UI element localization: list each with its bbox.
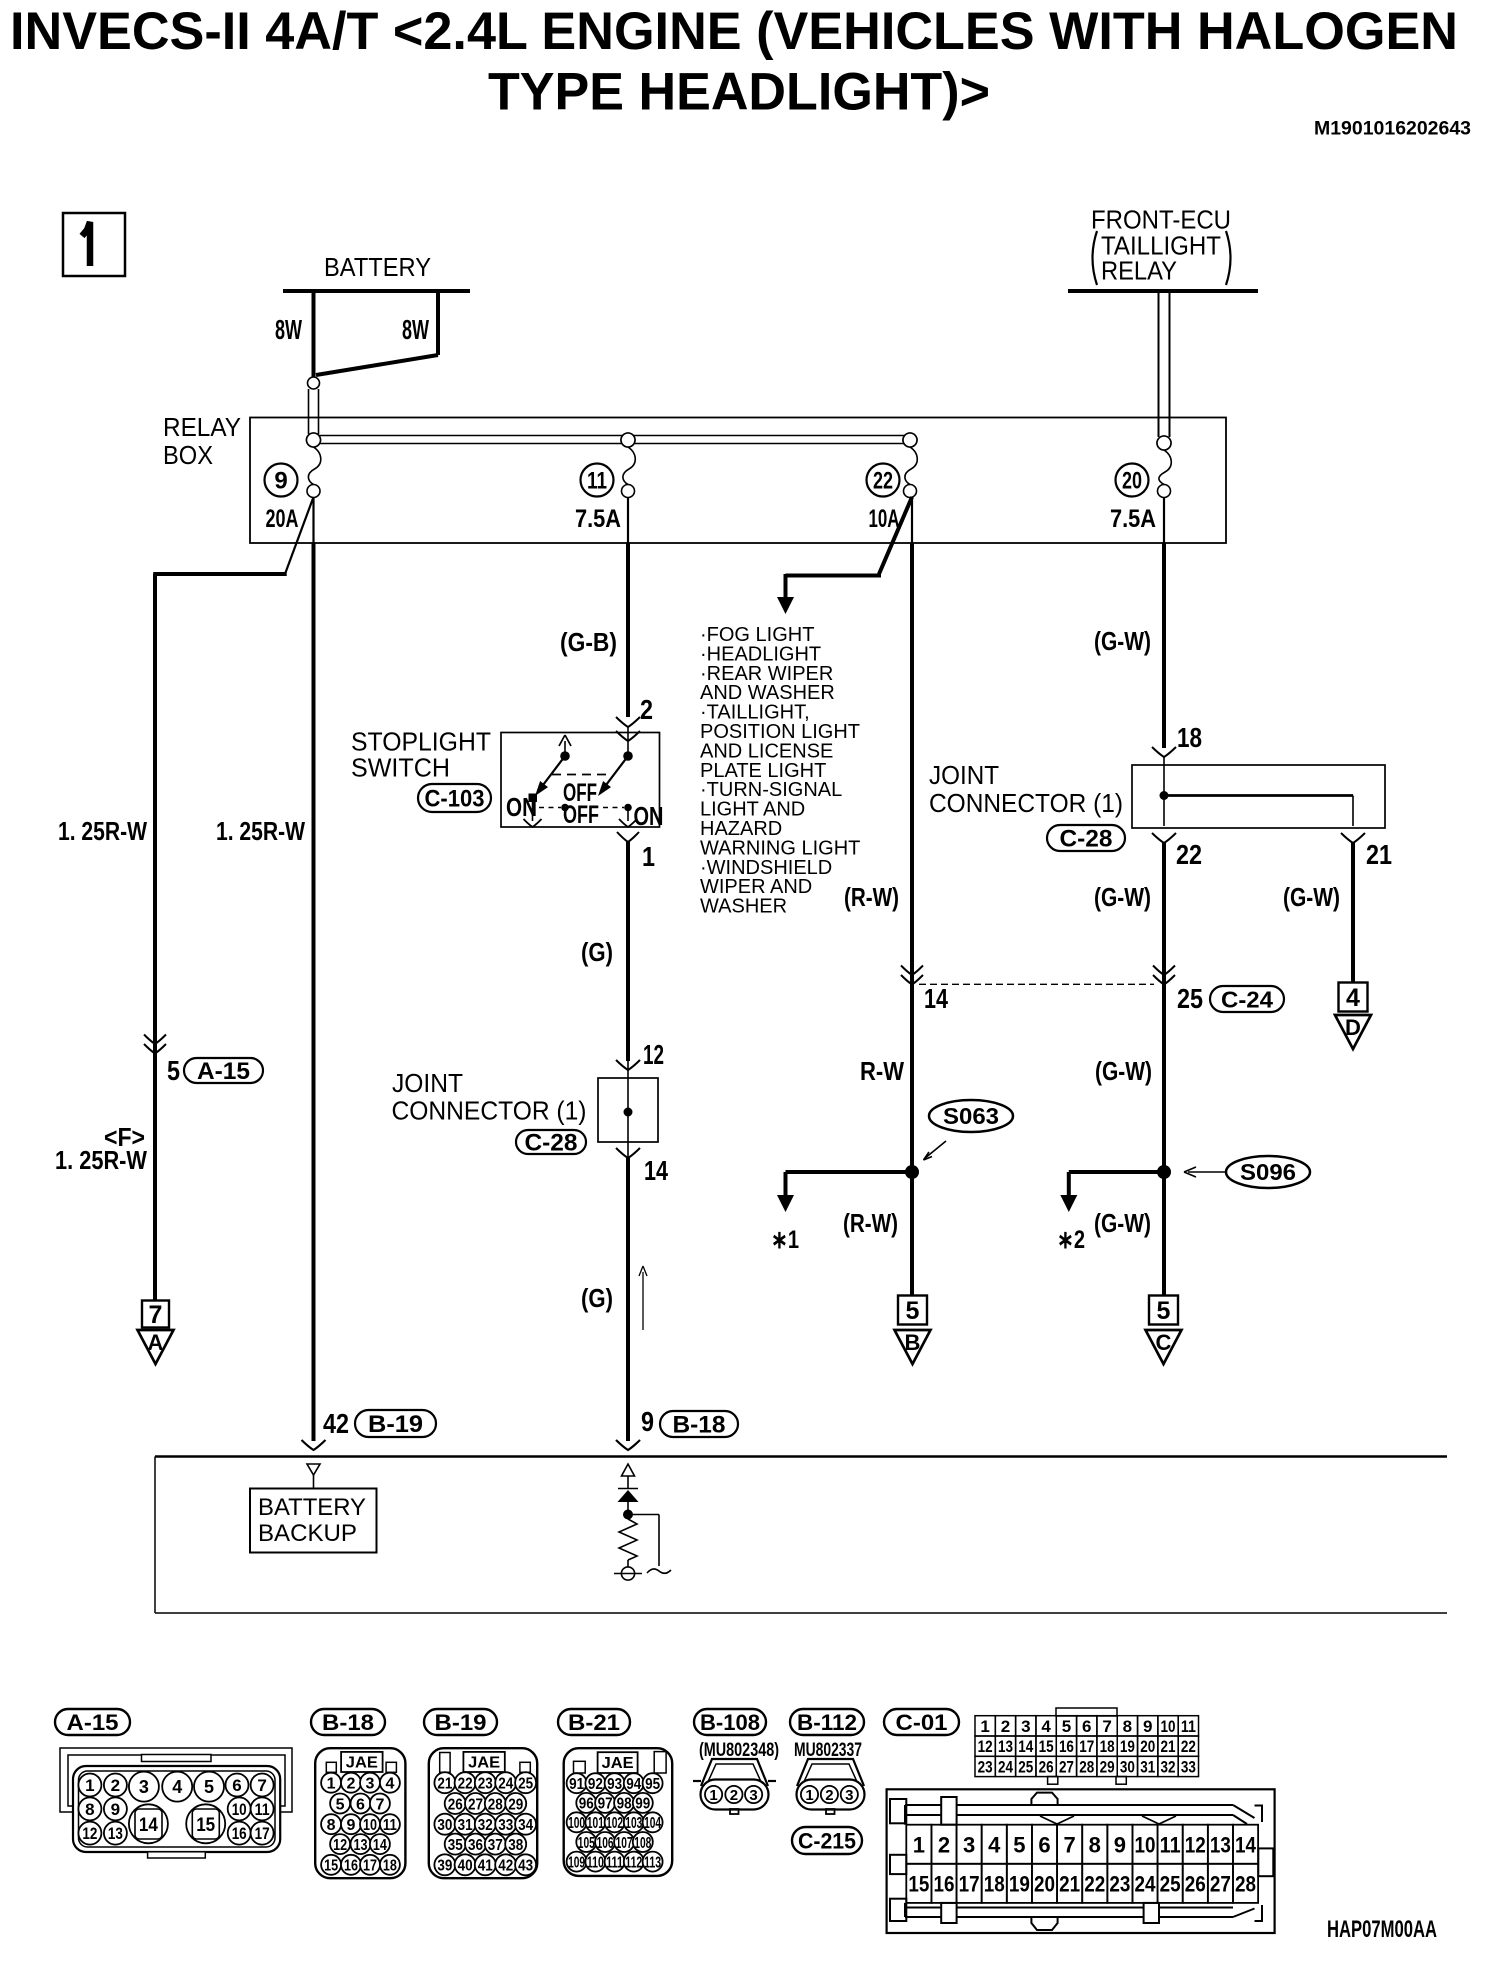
svg-text:14: 14 xyxy=(1018,1737,1033,1756)
svg-text:D: D xyxy=(1345,1015,1361,1040)
svg-text:11: 11 xyxy=(255,1800,270,1819)
svg-text:B-112: B-112 xyxy=(797,1710,857,1735)
svg-text:15: 15 xyxy=(908,1871,929,1896)
svg-text:C-28: C-28 xyxy=(525,1130,578,1157)
svg-text:6: 6 xyxy=(356,1796,365,1813)
svg-text:B-19: B-19 xyxy=(435,1710,487,1735)
svg-text:97: 97 xyxy=(598,1796,613,1813)
svg-text:31: 31 xyxy=(458,1817,473,1834)
svg-text:26: 26 xyxy=(1185,1871,1206,1896)
svg-text:1: 1 xyxy=(980,1717,989,1736)
svg-text:28: 28 xyxy=(1235,1871,1256,1896)
svg-text:17: 17 xyxy=(959,1871,980,1896)
svg-text:10A: 10A xyxy=(869,505,900,533)
svg-text:ON: ON xyxy=(506,792,537,822)
svg-text:WASHER: WASHER xyxy=(700,896,787,918)
svg-text:18: 18 xyxy=(1100,1737,1115,1756)
svg-text:3: 3 xyxy=(139,1777,149,1797)
svg-text:B-19: B-19 xyxy=(368,1411,423,1438)
svg-text:11: 11 xyxy=(383,1817,397,1834)
svg-text:16: 16 xyxy=(232,1824,247,1843)
svg-text:10: 10 xyxy=(1135,1832,1156,1857)
svg-text:B: B xyxy=(905,1330,921,1355)
svg-text:32: 32 xyxy=(1161,1757,1176,1776)
svg-text:1: 1 xyxy=(709,1787,717,1804)
svg-text:8: 8 xyxy=(85,1800,94,1819)
svg-text:27: 27 xyxy=(1059,1757,1074,1776)
svg-text:24: 24 xyxy=(1135,1871,1157,1896)
svg-text:BOX: BOX xyxy=(163,440,213,470)
svg-text:21: 21 xyxy=(437,1775,452,1792)
svg-text:4: 4 xyxy=(988,1832,1001,1857)
svg-text:3: 3 xyxy=(845,1787,853,1804)
svg-text:1. 25R-W: 1. 25R-W xyxy=(216,816,305,846)
svg-text:∗1: ∗1 xyxy=(771,1226,799,1254)
svg-text:19: 19 xyxy=(1120,1737,1135,1756)
svg-text:(R-W): (R-W) xyxy=(844,882,899,912)
svg-text:SWITCH: SWITCH xyxy=(351,753,450,783)
svg-text:38: 38 xyxy=(508,1837,523,1854)
svg-text:27: 27 xyxy=(1210,1871,1231,1896)
svg-text:40: 40 xyxy=(458,1858,473,1875)
svg-text:113: 113 xyxy=(644,1854,661,1871)
svg-text:37: 37 xyxy=(488,1837,503,1854)
svg-text:5: 5 xyxy=(336,1796,345,1813)
svg-text:11: 11 xyxy=(1160,1832,1181,1857)
svg-text:42: 42 xyxy=(323,1408,349,1439)
svg-text:JAE: JAE xyxy=(602,1755,634,1772)
svg-text:14: 14 xyxy=(139,1815,158,1836)
svg-text:22: 22 xyxy=(1176,839,1202,870)
svg-text:14: 14 xyxy=(924,983,948,1014)
svg-text:42: 42 xyxy=(498,1858,513,1875)
svg-text:17: 17 xyxy=(255,1824,270,1843)
svg-text:29: 29 xyxy=(508,1796,523,1813)
svg-text:BACKUP: BACKUP xyxy=(258,1520,357,1547)
svg-text:20: 20 xyxy=(1034,1871,1055,1896)
svg-text:6: 6 xyxy=(232,1776,241,1795)
svg-text:102: 102 xyxy=(606,1815,623,1832)
svg-text:3: 3 xyxy=(1021,1717,1030,1736)
svg-text:101: 101 xyxy=(587,1815,604,1832)
svg-text:17: 17 xyxy=(363,1858,377,1875)
svg-text:11: 11 xyxy=(587,468,607,495)
svg-text:98: 98 xyxy=(617,1796,632,1813)
svg-text:1. 25R-W: 1. 25R-W xyxy=(58,816,147,846)
svg-text:32: 32 xyxy=(478,1817,493,1834)
svg-text:105: 105 xyxy=(578,1835,595,1852)
svg-text:(G-W): (G-W) xyxy=(1283,882,1340,912)
svg-text:(G-W): (G-W) xyxy=(1094,1208,1151,1238)
svg-text:26: 26 xyxy=(1039,1757,1054,1776)
svg-text:HAP07M00AA: HAP07M00AA xyxy=(1327,1916,1437,1943)
svg-text:9: 9 xyxy=(111,1800,120,1819)
svg-text:23: 23 xyxy=(1109,1871,1130,1896)
svg-text:34: 34 xyxy=(518,1817,533,1834)
svg-text:28: 28 xyxy=(1079,1757,1094,1776)
svg-text:CONNECTOR (1): CONNECTOR (1) xyxy=(392,1096,587,1126)
svg-text:7: 7 xyxy=(375,1796,384,1813)
svg-text:ON: ON xyxy=(634,801,664,831)
svg-text:21: 21 xyxy=(1059,1871,1080,1896)
svg-text:1: 1 xyxy=(913,1832,925,1857)
svg-text:3: 3 xyxy=(963,1832,975,1857)
svg-text:35: 35 xyxy=(448,1837,463,1854)
svg-text:C-01: C-01 xyxy=(896,1710,948,1735)
svg-text:BATTERY: BATTERY xyxy=(258,1494,366,1521)
svg-text:JOINT: JOINT xyxy=(392,1068,463,1098)
svg-text:110: 110 xyxy=(587,1854,604,1871)
svg-text:16: 16 xyxy=(933,1871,954,1896)
svg-text:21: 21 xyxy=(1161,1737,1176,1756)
svg-text:2: 2 xyxy=(825,1787,833,1804)
svg-text:(G): (G) xyxy=(581,937,613,967)
svg-text:33: 33 xyxy=(1181,1757,1196,1776)
svg-text:3: 3 xyxy=(749,1787,757,1804)
svg-text:92: 92 xyxy=(588,1776,603,1793)
svg-text:B-18: B-18 xyxy=(322,1710,374,1735)
svg-text:(R-W): (R-W) xyxy=(843,1208,898,1238)
svg-text:14: 14 xyxy=(644,1155,668,1186)
svg-text:12: 12 xyxy=(1185,1832,1206,1857)
svg-text:99: 99 xyxy=(635,1796,650,1813)
svg-text:S063: S063 xyxy=(943,1103,999,1129)
svg-text:TYPE HEADLIGHT)>: TYPE HEADLIGHT)> xyxy=(488,63,990,122)
svg-text:23: 23 xyxy=(478,1775,493,1792)
svg-text:31: 31 xyxy=(1140,1757,1155,1776)
svg-text:R-W: R-W xyxy=(860,1056,904,1086)
svg-text:6: 6 xyxy=(1038,1832,1050,1857)
svg-text:111: 111 xyxy=(606,1854,623,1871)
svg-text:BATTERY: BATTERY xyxy=(324,252,431,282)
svg-text:(G-W): (G-W) xyxy=(1095,1056,1152,1086)
svg-text:11: 11 xyxy=(1181,1717,1196,1736)
svg-text:21: 21 xyxy=(1366,839,1392,870)
svg-text:JOINT: JOINT xyxy=(929,760,999,790)
svg-text:25: 25 xyxy=(518,1775,533,1792)
svg-text:103: 103 xyxy=(625,1815,642,1832)
svg-text:RELAY: RELAY xyxy=(163,412,241,442)
svg-text:41: 41 xyxy=(478,1858,493,1875)
svg-text:M1901016202643: M1901016202643 xyxy=(1314,118,1471,140)
svg-text:93: 93 xyxy=(607,1776,622,1793)
svg-text:33: 33 xyxy=(498,1817,513,1834)
svg-text:94: 94 xyxy=(626,1776,641,1793)
svg-text:5: 5 xyxy=(1013,1832,1025,1857)
svg-text:4: 4 xyxy=(172,1777,182,1797)
svg-text:∗2: ∗2 xyxy=(1057,1226,1085,1254)
svg-text:A: A xyxy=(148,1330,164,1355)
svg-text:23: 23 xyxy=(978,1757,993,1776)
svg-text:4: 4 xyxy=(385,1775,394,1792)
svg-text:18: 18 xyxy=(383,1858,397,1875)
svg-text:5: 5 xyxy=(167,1055,180,1086)
svg-text:96: 96 xyxy=(579,1796,594,1813)
svg-text:20: 20 xyxy=(1122,468,1142,495)
svg-text:12: 12 xyxy=(333,1837,347,1854)
svg-text:8: 8 xyxy=(1089,1832,1101,1857)
svg-text:108: 108 xyxy=(634,1835,651,1852)
svg-text:15: 15 xyxy=(1039,1737,1054,1756)
svg-text:112: 112 xyxy=(625,1854,642,1871)
svg-text:A-15: A-15 xyxy=(67,1710,119,1735)
svg-text:107: 107 xyxy=(616,1835,633,1852)
svg-text:2: 2 xyxy=(640,694,653,725)
svg-text:25: 25 xyxy=(1177,983,1203,1014)
svg-text:7: 7 xyxy=(1064,1832,1076,1857)
svg-text:C-28: C-28 xyxy=(1060,826,1113,853)
svg-text:15: 15 xyxy=(324,1858,338,1875)
svg-text:14: 14 xyxy=(1235,1832,1257,1857)
svg-text:15: 15 xyxy=(196,1815,215,1836)
svg-text:29: 29 xyxy=(1100,1757,1115,1776)
svg-text:A-15: A-15 xyxy=(197,1058,250,1085)
svg-text:16: 16 xyxy=(1059,1737,1074,1756)
svg-text:36: 36 xyxy=(468,1837,483,1854)
svg-text:1. 25R-W: 1. 25R-W xyxy=(55,1145,147,1175)
svg-text:14: 14 xyxy=(373,1837,387,1854)
svg-text:2: 2 xyxy=(111,1776,120,1795)
svg-text:106: 106 xyxy=(597,1835,614,1852)
svg-text:19: 19 xyxy=(1009,1871,1030,1896)
svg-text:MU802337: MU802337 xyxy=(794,1740,862,1761)
svg-text:1: 1 xyxy=(327,1775,336,1792)
svg-text:10: 10 xyxy=(363,1817,377,1834)
svg-text:2: 2 xyxy=(1001,1717,1010,1736)
svg-text:6: 6 xyxy=(1082,1717,1091,1736)
svg-text:8W: 8W xyxy=(275,314,302,345)
svg-text:(G-B): (G-B) xyxy=(560,627,617,657)
svg-text:24: 24 xyxy=(498,1775,513,1792)
svg-text:8: 8 xyxy=(1123,1717,1132,1736)
svg-text:(G-W): (G-W) xyxy=(1094,626,1151,656)
svg-text:12: 12 xyxy=(82,1824,97,1843)
svg-text:7.5A: 7.5A xyxy=(1110,505,1156,533)
svg-text:CONNECTOR (1): CONNECTOR (1) xyxy=(929,788,1123,818)
svg-text:C-24: C-24 xyxy=(1221,986,1273,1012)
svg-text:25: 25 xyxy=(1018,1757,1033,1776)
svg-text:16: 16 xyxy=(344,1858,358,1875)
svg-text:30: 30 xyxy=(1120,1757,1135,1776)
svg-text:7: 7 xyxy=(149,1301,163,1329)
svg-text:2: 2 xyxy=(938,1832,950,1857)
svg-text:7: 7 xyxy=(257,1776,266,1795)
svg-text:39: 39 xyxy=(437,1858,452,1875)
svg-text:22: 22 xyxy=(873,468,893,495)
svg-text:12: 12 xyxy=(643,1039,664,1070)
svg-text:B-108: B-108 xyxy=(700,1710,760,1735)
svg-text:30: 30 xyxy=(437,1817,452,1834)
svg-text:20A: 20A xyxy=(266,505,299,533)
svg-text:20: 20 xyxy=(1140,1737,1155,1756)
svg-text:OFF: OFF xyxy=(563,801,599,829)
svg-text:12: 12 xyxy=(978,1737,993,1756)
svg-text:INVECS-II 4A/T <2.4L ENGINE (V: INVECS-II 4A/T <2.4L ENGINE (VEHICLES WI… xyxy=(10,2,1458,61)
svg-text:4: 4 xyxy=(1041,1717,1051,1736)
svg-text:18: 18 xyxy=(984,1871,1005,1896)
svg-text:7: 7 xyxy=(1102,1717,1111,1736)
svg-text:(G-W): (G-W) xyxy=(1094,882,1151,912)
svg-text:13: 13 xyxy=(354,1837,368,1854)
svg-text:2: 2 xyxy=(730,1787,738,1804)
svg-text:43: 43 xyxy=(518,1858,533,1875)
svg-text:(G): (G) xyxy=(581,1283,613,1313)
svg-text:8: 8 xyxy=(327,1817,336,1834)
svg-text:25: 25 xyxy=(1160,1871,1181,1896)
svg-text:(MU802348): (MU802348) xyxy=(699,1740,779,1761)
svg-text:C: C xyxy=(1156,1330,1172,1355)
svg-text:109: 109 xyxy=(568,1854,585,1871)
svg-text:B-18: B-18 xyxy=(673,1412,726,1439)
svg-text:1: 1 xyxy=(805,1787,813,1804)
svg-text:JAE: JAE xyxy=(346,1755,378,1772)
svg-text:104: 104 xyxy=(644,1815,661,1832)
svg-text:2: 2 xyxy=(347,1775,356,1792)
svg-text:S096: S096 xyxy=(1240,1159,1296,1185)
svg-text:91: 91 xyxy=(569,1776,584,1793)
svg-text:17: 17 xyxy=(1079,1737,1094,1756)
svg-text:24: 24 xyxy=(998,1757,1013,1776)
svg-text:9: 9 xyxy=(1143,1717,1152,1736)
svg-text:C-215: C-215 xyxy=(798,1828,856,1853)
svg-text:RELAY: RELAY xyxy=(1101,256,1177,286)
svg-text:8W: 8W xyxy=(402,314,429,345)
svg-text:26: 26 xyxy=(448,1796,463,1813)
svg-text:13: 13 xyxy=(108,1824,123,1843)
svg-text:13: 13 xyxy=(998,1737,1013,1756)
svg-text:22: 22 xyxy=(1084,1871,1105,1896)
svg-text:9: 9 xyxy=(641,1406,654,1437)
svg-text:3: 3 xyxy=(366,1775,375,1792)
svg-text:9: 9 xyxy=(347,1817,356,1834)
svg-text:7.5A: 7.5A xyxy=(575,505,621,533)
svg-text:22: 22 xyxy=(458,1775,473,1792)
svg-text:18: 18 xyxy=(1177,722,1202,753)
svg-text:95: 95 xyxy=(645,1776,660,1793)
svg-text:1: 1 xyxy=(642,841,655,872)
svg-text:27: 27 xyxy=(468,1796,483,1813)
svg-text:10: 10 xyxy=(232,1800,247,1819)
svg-text:22: 22 xyxy=(1181,1737,1196,1756)
svg-text:100: 100 xyxy=(568,1815,585,1832)
svg-text:13: 13 xyxy=(1210,1832,1231,1857)
svg-text:C-103: C-103 xyxy=(425,786,485,813)
svg-text:5: 5 xyxy=(1062,1717,1071,1736)
svg-text:5: 5 xyxy=(1157,1297,1171,1325)
svg-text:JAE: JAE xyxy=(468,1755,500,1772)
svg-text:9: 9 xyxy=(1114,1832,1126,1857)
svg-text:4: 4 xyxy=(1346,984,1360,1012)
svg-text:10: 10 xyxy=(1161,1717,1176,1736)
svg-text:1: 1 xyxy=(85,1776,94,1795)
svg-text:9: 9 xyxy=(274,468,287,495)
svg-text:5: 5 xyxy=(204,1777,214,1797)
svg-text:28: 28 xyxy=(488,1796,503,1813)
svg-text:B-21: B-21 xyxy=(568,1710,620,1735)
svg-text:5: 5 xyxy=(906,1297,920,1325)
